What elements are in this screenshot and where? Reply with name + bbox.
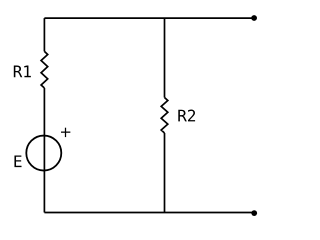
plus sign polarity mark (61, 128, 70, 137)
node terminal bottom-right (251, 210, 257, 216)
resistor R1 (41, 51, 48, 88)
label R2 (178, 110, 195, 122)
wire top horizontal (44, 17, 254, 19)
wire middle top lead (164, 18, 166, 97)
label E (14, 155, 21, 167)
node terminal top-right (251, 15, 257, 21)
wire bottom horizontal (44, 212, 254, 214)
label R1 (14, 66, 31, 78)
wire left top lead (43, 18, 45, 51)
wire middle bottom lead (164, 133, 166, 213)
wire left below R1 through source to bottom (43, 88, 45, 213)
voltage source E circle (26, 136, 61, 171)
resistor R2 (161, 98, 168, 134)
